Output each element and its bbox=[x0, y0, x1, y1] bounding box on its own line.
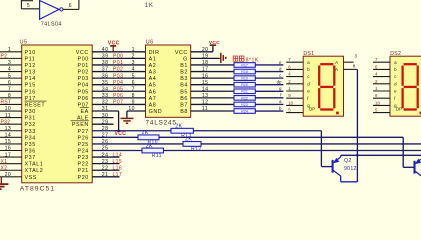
svg-text:74LS245: 74LS245 bbox=[146, 120, 177, 127]
svg-text:9012: 9012 bbox=[344, 166, 357, 172]
DS2 decimal point bbox=[420, 112, 421, 115]
wire U5 to U6 bbox=[92, 103, 145, 105]
U5 pin 5 P14 stub bbox=[0, 77, 22, 79]
wire Q2 base lead bbox=[321, 166, 332, 168]
resistor R12 2K bbox=[183, 142, 201, 147]
svg-text:20: 20 bbox=[5, 172, 12, 178]
display DS2 body bbox=[390, 56, 421, 116]
svg-text:XTAL2: XTAL2 bbox=[25, 168, 44, 174]
svg-text:Q2: Q2 bbox=[344, 158, 352, 164]
svg-text:B5: B5 bbox=[180, 89, 188, 95]
svg-text:R11: R11 bbox=[152, 153, 162, 159]
svg-text:6: 6 bbox=[132, 80, 135, 86]
wire resistor to segment net a bbox=[255, 103, 283, 105]
svg-text:15: 15 bbox=[5, 139, 12, 145]
wire U6 B1 to resistor bbox=[191, 64, 234, 66]
wire U6 B3 to resistor bbox=[191, 77, 234, 79]
DS2 pin stub 4 bbox=[373, 76, 390, 78]
wire U5 to U6 bbox=[92, 71, 145, 73]
resistor R13 2K bbox=[171, 128, 193, 133]
svg-text:P25: P25 bbox=[78, 142, 89, 148]
svg-text:dp: dp bbox=[277, 80, 282, 85]
svg-text:VCC: VCC bbox=[175, 50, 188, 56]
box fragment top edge bbox=[21, 0, 33, 2]
wire U6 VCC pin20 bbox=[191, 51, 213, 53]
DS2 pin stub 10 bbox=[373, 104, 390, 106]
wire inverter output pin 6 bbox=[63, 8, 79, 10]
svg-text:X2: X2 bbox=[1, 165, 8, 171]
svg-text:6: 6 bbox=[8, 80, 11, 86]
svg-text:A4: A4 bbox=[149, 76, 157, 82]
DS1 pin stub 1 bbox=[286, 90, 303, 92]
DS1 pin stub 9 bbox=[286, 97, 303, 99]
svg-text:P16: P16 bbox=[25, 89, 36, 95]
svg-text:RST: RST bbox=[1, 100, 12, 106]
U5 pin 6 P15 stub bbox=[0, 84, 22, 86]
svg-text:R24: R24 bbox=[241, 109, 248, 113]
resistor R20 (pack) bbox=[234, 82, 255, 87]
wire U6 B6 to resistor bbox=[191, 97, 234, 99]
U5 pin 9 RESET stub bbox=[0, 103, 22, 105]
DS1 pin stub 6 bbox=[286, 68, 303, 70]
svg-text:2K: 2K bbox=[146, 143, 153, 149]
DS2 pin stub 9 bbox=[373, 97, 390, 99]
svg-text:4: 4 bbox=[8, 67, 11, 73]
wire U5 to U6 bbox=[92, 97, 145, 99]
wire resistor to segment net g bbox=[255, 90, 283, 92]
svg-text:B4: B4 bbox=[180, 83, 188, 89]
wire DS1 A vertical bbox=[356, 69, 358, 181]
wire stub bbox=[92, 169, 119, 171]
svg-text:7: 7 bbox=[8, 86, 11, 92]
DS1 pin stub 4 bbox=[286, 76, 303, 78]
svg-text:P12: P12 bbox=[25, 63, 36, 69]
svg-text:P20: P20 bbox=[78, 175, 89, 181]
DS2 seven-segment digit 8 bbox=[403, 64, 418, 109]
ground symbol bottom-left bbox=[0, 183, 8, 185]
wire resistor to segment net c bbox=[255, 77, 283, 79]
wire U5 to U6 bbox=[92, 90, 145, 92]
resistor R24 (pack) bbox=[234, 109, 255, 114]
svg-text:DP: DP bbox=[309, 106, 315, 111]
svg-text:P32: P32 bbox=[1, 119, 11, 125]
svg-text:5: 5 bbox=[8, 73, 11, 79]
wire VSS to ground bbox=[0, 177, 2, 184]
U5 pin 8 P17 stub bbox=[0, 97, 22, 99]
wire P26 row to Q3 base bbox=[92, 136, 403, 138]
svg-text:11: 11 bbox=[5, 113, 11, 119]
U5 pin 10 P30 stub bbox=[0, 110, 22, 112]
DS2 pin stub 7 bbox=[373, 61, 390, 63]
wire U5 to U6 bbox=[92, 84, 145, 86]
wire PSEN stub bbox=[92, 123, 113, 125]
resistor R17 (pack) bbox=[234, 63, 255, 68]
svg-text:16: 16 bbox=[5, 146, 12, 152]
U5 pin 11 P31 stub bbox=[0, 117, 22, 119]
wire P27 row to Q2 base bbox=[92, 130, 321, 132]
svg-text:P35: P35 bbox=[25, 142, 36, 148]
svg-text:10: 10 bbox=[375, 100, 380, 105]
U5 pin 18 XTAL1 stub bbox=[0, 163, 22, 165]
svg-text:9: 9 bbox=[132, 100, 135, 106]
svg-text:A: A bbox=[335, 67, 338, 72]
svg-text:U6: U6 bbox=[146, 39, 154, 45]
svg-text:VSS: VSS bbox=[25, 175, 37, 181]
DS1 pin 8 wire to vertical bbox=[344, 68, 358, 70]
wire P24 row bbox=[92, 150, 421, 152]
resistor R21 (pack) bbox=[234, 89, 255, 94]
svg-text:A3: A3 bbox=[149, 70, 157, 76]
svg-text:4: 4 bbox=[132, 67, 135, 73]
DS1 pin stub 5 bbox=[286, 112, 303, 114]
U5 pin 17 P37 stub bbox=[0, 156, 22, 158]
wire emitter rail bbox=[341, 154, 421, 156]
wire EA pin31 to VCC net bbox=[92, 110, 118, 112]
svg-text:P33: P33 bbox=[25, 129, 36, 135]
DS1 pin 3 stub bbox=[344, 61, 354, 63]
svg-text:10: 10 bbox=[5, 106, 12, 112]
svg-text:8: 8 bbox=[132, 93, 135, 99]
svg-text:A: A bbox=[335, 60, 338, 65]
svg-text:1: 1 bbox=[132, 47, 135, 53]
svg-text:DIR: DIR bbox=[149, 50, 160, 56]
svg-text:GND: GND bbox=[149, 109, 163, 115]
svg-text:B8: B8 bbox=[180, 109, 188, 115]
overline PSEN bbox=[71, 120, 89, 122]
U5 pin 3 P12 stub bbox=[0, 64, 22, 66]
ground symbol at U6 G pin (rotated) bbox=[220, 53, 222, 63]
U5 pin 13 P33 stub bbox=[0, 130, 22, 132]
svg-text:P30: P30 bbox=[25, 109, 36, 115]
svg-text:DS1: DS1 bbox=[303, 51, 314, 57]
svg-text:A2: A2 bbox=[149, 63, 157, 69]
DS1 pin stub 10 bbox=[286, 104, 303, 106]
junction dot bbox=[356, 154, 359, 157]
svg-text:P14: P14 bbox=[25, 76, 36, 82]
svg-text:A5: A5 bbox=[149, 83, 157, 89]
svg-text:P22: P22 bbox=[78, 162, 89, 168]
wire Q3 base lead bbox=[403, 166, 414, 168]
svg-text:P27: P27 bbox=[78, 129, 89, 135]
resistor R23 (pack) bbox=[234, 102, 255, 107]
wire stub bbox=[92, 156, 119, 158]
U5 pin 20 VSS stub bbox=[0, 176, 22, 178]
U5 pin 1 P10 stub bbox=[0, 51, 22, 53]
wire resistor to segment net f bbox=[255, 97, 283, 99]
resistor R11 2K bbox=[142, 148, 164, 153]
svg-text:X1: X1 bbox=[1, 159, 8, 165]
svg-text:A1: A1 bbox=[149, 56, 157, 62]
overline EA bbox=[80, 107, 89, 109]
display DS1 body bbox=[303, 56, 343, 116]
wire U6 B5 to resistor bbox=[191, 90, 234, 92]
svg-text:A8: A8 bbox=[149, 102, 157, 108]
DS2 pin stub 6 bbox=[373, 68, 390, 70]
svg-text:P02: P02 bbox=[78, 70, 89, 76]
wire U6 G pin19 bbox=[191, 57, 220, 59]
DS1 pin stub 7 bbox=[286, 61, 303, 63]
svg-text:7: 7 bbox=[132, 86, 135, 92]
DS1 decimal point bbox=[336, 112, 339, 115]
svg-text:P05: P05 bbox=[78, 89, 89, 95]
wire input to inverter pin 5 bbox=[20, 0, 22, 9]
wire U5 to U6 bbox=[92, 57, 145, 59]
svg-text:XTAL1: XTAL1 bbox=[25, 162, 44, 168]
svg-text:74LS04: 74LS04 bbox=[41, 21, 62, 27]
U5 pin 19 XTAL2 stub bbox=[0, 169, 22, 171]
svg-text:3: 3 bbox=[132, 60, 135, 66]
svg-text:2K: 2K bbox=[185, 137, 192, 143]
transistor Q3 (partial) bbox=[415, 159, 421, 176]
U5 pin 4 P13 stub bbox=[0, 71, 22, 73]
wire U6 B4 to resistor bbox=[191, 84, 234, 86]
svg-text:P24: P24 bbox=[78, 149, 89, 155]
wire ALE stub bbox=[92, 117, 113, 119]
svg-text:U5: U5 bbox=[20, 39, 28, 45]
svg-text:3: 3 bbox=[8, 60, 11, 66]
svg-text:13: 13 bbox=[5, 126, 12, 132]
ground symbol under U6 bbox=[121, 117, 134, 119]
svg-text:B1: B1 bbox=[180, 63, 188, 69]
inverter gate 74LS04 triangle bbox=[40, 1, 59, 20]
DS2 pin stub 2 bbox=[373, 83, 390, 85]
svg-text:VCC: VCC bbox=[76, 50, 89, 56]
svg-text:17: 17 bbox=[5, 152, 12, 158]
svg-text:R17: R17 bbox=[241, 63, 248, 67]
junction dot EA/VCC bbox=[117, 129, 120, 132]
U5 pin 12 P32 stub bbox=[0, 123, 22, 125]
svg-text:6: 6 bbox=[69, 3, 72, 9]
svg-text:P34: P34 bbox=[25, 135, 36, 141]
U5 pin 15 P35 stub bbox=[0, 143, 22, 145]
wire U5 to U6 bbox=[92, 64, 145, 66]
svg-text:P26: P26 bbox=[78, 135, 89, 141]
svg-text:AT89C51: AT89C51 bbox=[20, 186, 55, 192]
svg-text:14: 14 bbox=[5, 133, 12, 139]
svg-text:A6: A6 bbox=[149, 89, 157, 95]
transistor Q2 9012 (PNP) bbox=[333, 155, 358, 182]
svg-text:R21: R21 bbox=[241, 90, 248, 94]
svg-text:PSEN: PSEN bbox=[72, 122, 89, 128]
svg-text:P21: P21 bbox=[78, 168, 89, 174]
wire resistor to segment net b bbox=[255, 110, 283, 112]
IC U5 AT89C51 body bbox=[22, 45, 93, 183]
DS1 pin stub 2 bbox=[286, 83, 303, 85]
svg-text:B7: B7 bbox=[180, 102, 188, 108]
svg-text:P01: P01 bbox=[78, 63, 89, 69]
svg-text:10: 10 bbox=[288, 100, 293, 105]
svg-text:B2: B2 bbox=[180, 70, 188, 76]
svg-text:R18: R18 bbox=[241, 70, 248, 74]
svg-text:G: G bbox=[183, 56, 188, 62]
wire U6 B2 to resistor bbox=[191, 71, 234, 73]
wire P25 row bbox=[92, 143, 421, 145]
svg-text:R23: R23 bbox=[241, 103, 248, 107]
wire resistor to segment net e bbox=[255, 64, 283, 66]
IC U6 74LS245 body bbox=[146, 45, 191, 117]
svg-text:P11: P11 bbox=[25, 56, 36, 62]
svg-text:R22: R22 bbox=[241, 96, 248, 100]
svg-text:DS2: DS2 bbox=[390, 51, 401, 57]
wire U5 to U6 bbox=[92, 77, 145, 79]
svg-text:P23: P23 bbox=[78, 155, 89, 161]
wire U6 B7 to resistor bbox=[191, 103, 234, 105]
svg-text:DP: DP bbox=[396, 106, 402, 111]
U5 pin 2 P11 stub bbox=[0, 57, 22, 59]
svg-text:P03: P03 bbox=[78, 76, 89, 82]
svg-text:P2: P2 bbox=[1, 54, 8, 60]
wire U6 GND pin10 to ground bbox=[127, 110, 146, 112]
svg-text:8: 8 bbox=[8, 93, 11, 99]
svg-text:P31: P31 bbox=[25, 116, 36, 122]
svg-text:R12: R12 bbox=[191, 146, 201, 152]
svg-text:A7: A7 bbox=[149, 96, 157, 102]
svg-text:R20: R20 bbox=[241, 83, 248, 87]
svg-text:P10: P10 bbox=[25, 50, 36, 56]
svg-text:P04: P04 bbox=[78, 83, 89, 89]
wire stub bbox=[92, 176, 119, 178]
svg-text:5: 5 bbox=[27, 3, 30, 9]
wire resistor to segment net dp bbox=[255, 84, 283, 86]
wire stub bbox=[92, 163, 119, 165]
svg-text:1K: 1K bbox=[145, 3, 154, 9]
wire U5 to U6 bbox=[92, 51, 145, 53]
DS1 seven-segment digit 8 bbox=[319, 64, 334, 109]
wire U6 B8 to resistor bbox=[191, 110, 234, 112]
svg-text:P00: P00 bbox=[78, 56, 89, 62]
svg-text:5: 5 bbox=[132, 73, 135, 79]
resistor R10 2K bbox=[138, 135, 159, 140]
svg-text:EA: EA bbox=[81, 109, 89, 115]
svg-text:P06: P06 bbox=[78, 96, 89, 102]
svg-text:B3: B3 bbox=[180, 76, 188, 82]
overline RESET bbox=[25, 100, 47, 102]
svg-text:1: 1 bbox=[8, 47, 11, 53]
resistor R22 (pack) bbox=[234, 96, 255, 101]
svg-text:2K: 2K bbox=[142, 130, 149, 136]
svg-text:2: 2 bbox=[132, 54, 135, 60]
svg-text:VCC: VCC bbox=[115, 131, 127, 137]
U5 pin 7 P16 stub bbox=[0, 90, 22, 92]
svg-text:P37: P37 bbox=[25, 155, 36, 161]
svg-text:P32: P32 bbox=[25, 122, 36, 128]
svg-text:P15: P15 bbox=[25, 83, 36, 89]
resistor R18 (pack) bbox=[234, 69, 255, 74]
DS2 pin stub 1 bbox=[373, 90, 390, 92]
svg-text:B6: B6 bbox=[180, 96, 188, 102]
svg-text:P13: P13 bbox=[25, 70, 36, 76]
svg-text:RESET: RESET bbox=[25, 102, 46, 108]
svg-text:P36: P36 bbox=[25, 149, 36, 155]
wire resistor to segment net d bbox=[255, 71, 283, 73]
U5 pin 16 P36 stub bbox=[0, 150, 22, 152]
svg-text:R19: R19 bbox=[241, 77, 248, 81]
label resistor pack 8*1K (CJK) bbox=[233, 56, 244, 61]
inverter output bubble bbox=[60, 8, 63, 11]
U5 pin 14 P34 stub bbox=[0, 136, 22, 138]
resistor R19 (pack) bbox=[234, 76, 255, 81]
DS2 pin stub 5 bbox=[373, 112, 390, 114]
